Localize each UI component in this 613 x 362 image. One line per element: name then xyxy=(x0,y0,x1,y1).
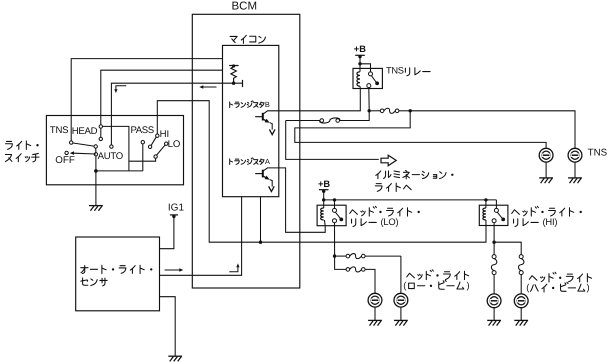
svg-text:(HI): (HI) xyxy=(543,216,558,227)
svg-text:HEAD: HEAD xyxy=(72,126,98,137)
svg-text:A: A xyxy=(265,157,270,166)
svg-text:TNS: TNS xyxy=(386,65,404,75)
svg-text:+B: +B xyxy=(318,179,330,189)
svg-text:B: B xyxy=(265,100,270,109)
svg-text:TNS: TNS xyxy=(50,125,69,136)
svg-text:): ) xyxy=(467,279,470,290)
svg-text:+B: +B xyxy=(354,44,366,54)
svg-text:OFF: OFF xyxy=(55,155,75,166)
svg-text:): ) xyxy=(587,281,590,292)
svg-text:AUTO: AUTO xyxy=(98,151,123,162)
svg-text:IG1: IG1 xyxy=(168,203,185,214)
svg-text:BCM: BCM xyxy=(232,0,258,12)
svg-text:PASS: PASS xyxy=(131,125,154,136)
svg-text:LO: LO xyxy=(168,139,181,150)
svg-text:TNS: TNS xyxy=(588,148,608,159)
svg-text:(LO): (LO) xyxy=(381,216,399,227)
